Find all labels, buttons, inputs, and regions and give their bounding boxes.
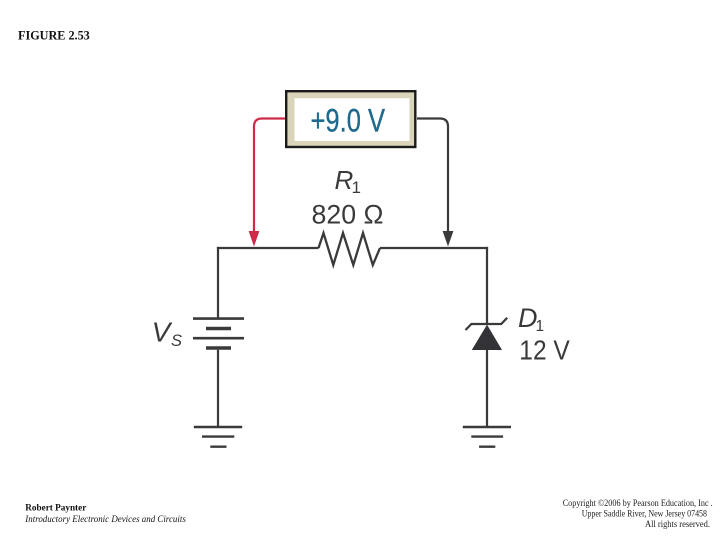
battery VS plate short 1	[206, 327, 231, 331]
wire right branch lower	[486, 350, 488, 426]
svg-text:FIGURE 2.53: FIGURE 2.53	[18, 28, 90, 42]
svg-text:820 Ω: 820 Ω	[312, 200, 384, 230]
red probe wire (left)	[254, 119, 285, 232]
wire top-left horizontal	[217, 247, 319, 249]
battery VS plate short 2	[206, 346, 231, 350]
red probe arrowhead	[249, 231, 260, 247]
svg-text:Robert Paynter: Robert Paynter	[25, 503, 86, 513]
svg-text:V: V	[152, 317, 173, 348]
zener diode D1 cathode bar	[466, 318, 508, 330]
ground (right) bar 3	[479, 446, 495, 448]
zener diode D1 triangle	[472, 325, 502, 350]
ground (left) bar 3	[210, 446, 226, 448]
wire top-right horizontal	[380, 247, 488, 249]
svg-text:R: R	[335, 165, 354, 195]
svg-text:12 V: 12 V	[519, 335, 570, 366]
meter box frame	[286, 91, 415, 147]
svg-text:+9.0 V: +9.0 V	[311, 102, 386, 138]
svg-text:S: S	[171, 332, 182, 350]
svg-text:1: 1	[352, 178, 361, 197]
svg-text:1: 1	[536, 318, 545, 335]
black probe arrowhead	[443, 231, 454, 247]
ground (right) bar 2	[471, 435, 503, 437]
battery VS plate long 2	[193, 337, 244, 340]
wire left branch upper	[217, 247, 219, 318]
ground (right) bar 1	[463, 426, 511, 428]
ground (left) bar 1	[194, 426, 242, 428]
svg-text:Copyright ©2006 by Pearson Edu: Copyright ©2006 by Pearson Education, In…	[563, 498, 713, 508]
resistor R1 zigzag	[319, 233, 381, 265]
svg-text:Introductory Electronic Device: Introductory Electronic Devices and Circ…	[24, 515, 186, 525]
ground (left) bar 2	[202, 435, 234, 437]
svg-text:Upper Saddle River, New Jersey: Upper Saddle River, New Jersey 07458	[582, 509, 708, 519]
wire right branch upper	[486, 247, 488, 323]
black probe wire (right)	[417, 119, 448, 232]
svg-text:All rights reserved.: All rights reserved.	[645, 519, 710, 529]
wire left branch lower	[217, 350, 219, 426]
battery VS plate long 1	[193, 317, 244, 320]
meter box inner white display	[295, 98, 410, 141]
